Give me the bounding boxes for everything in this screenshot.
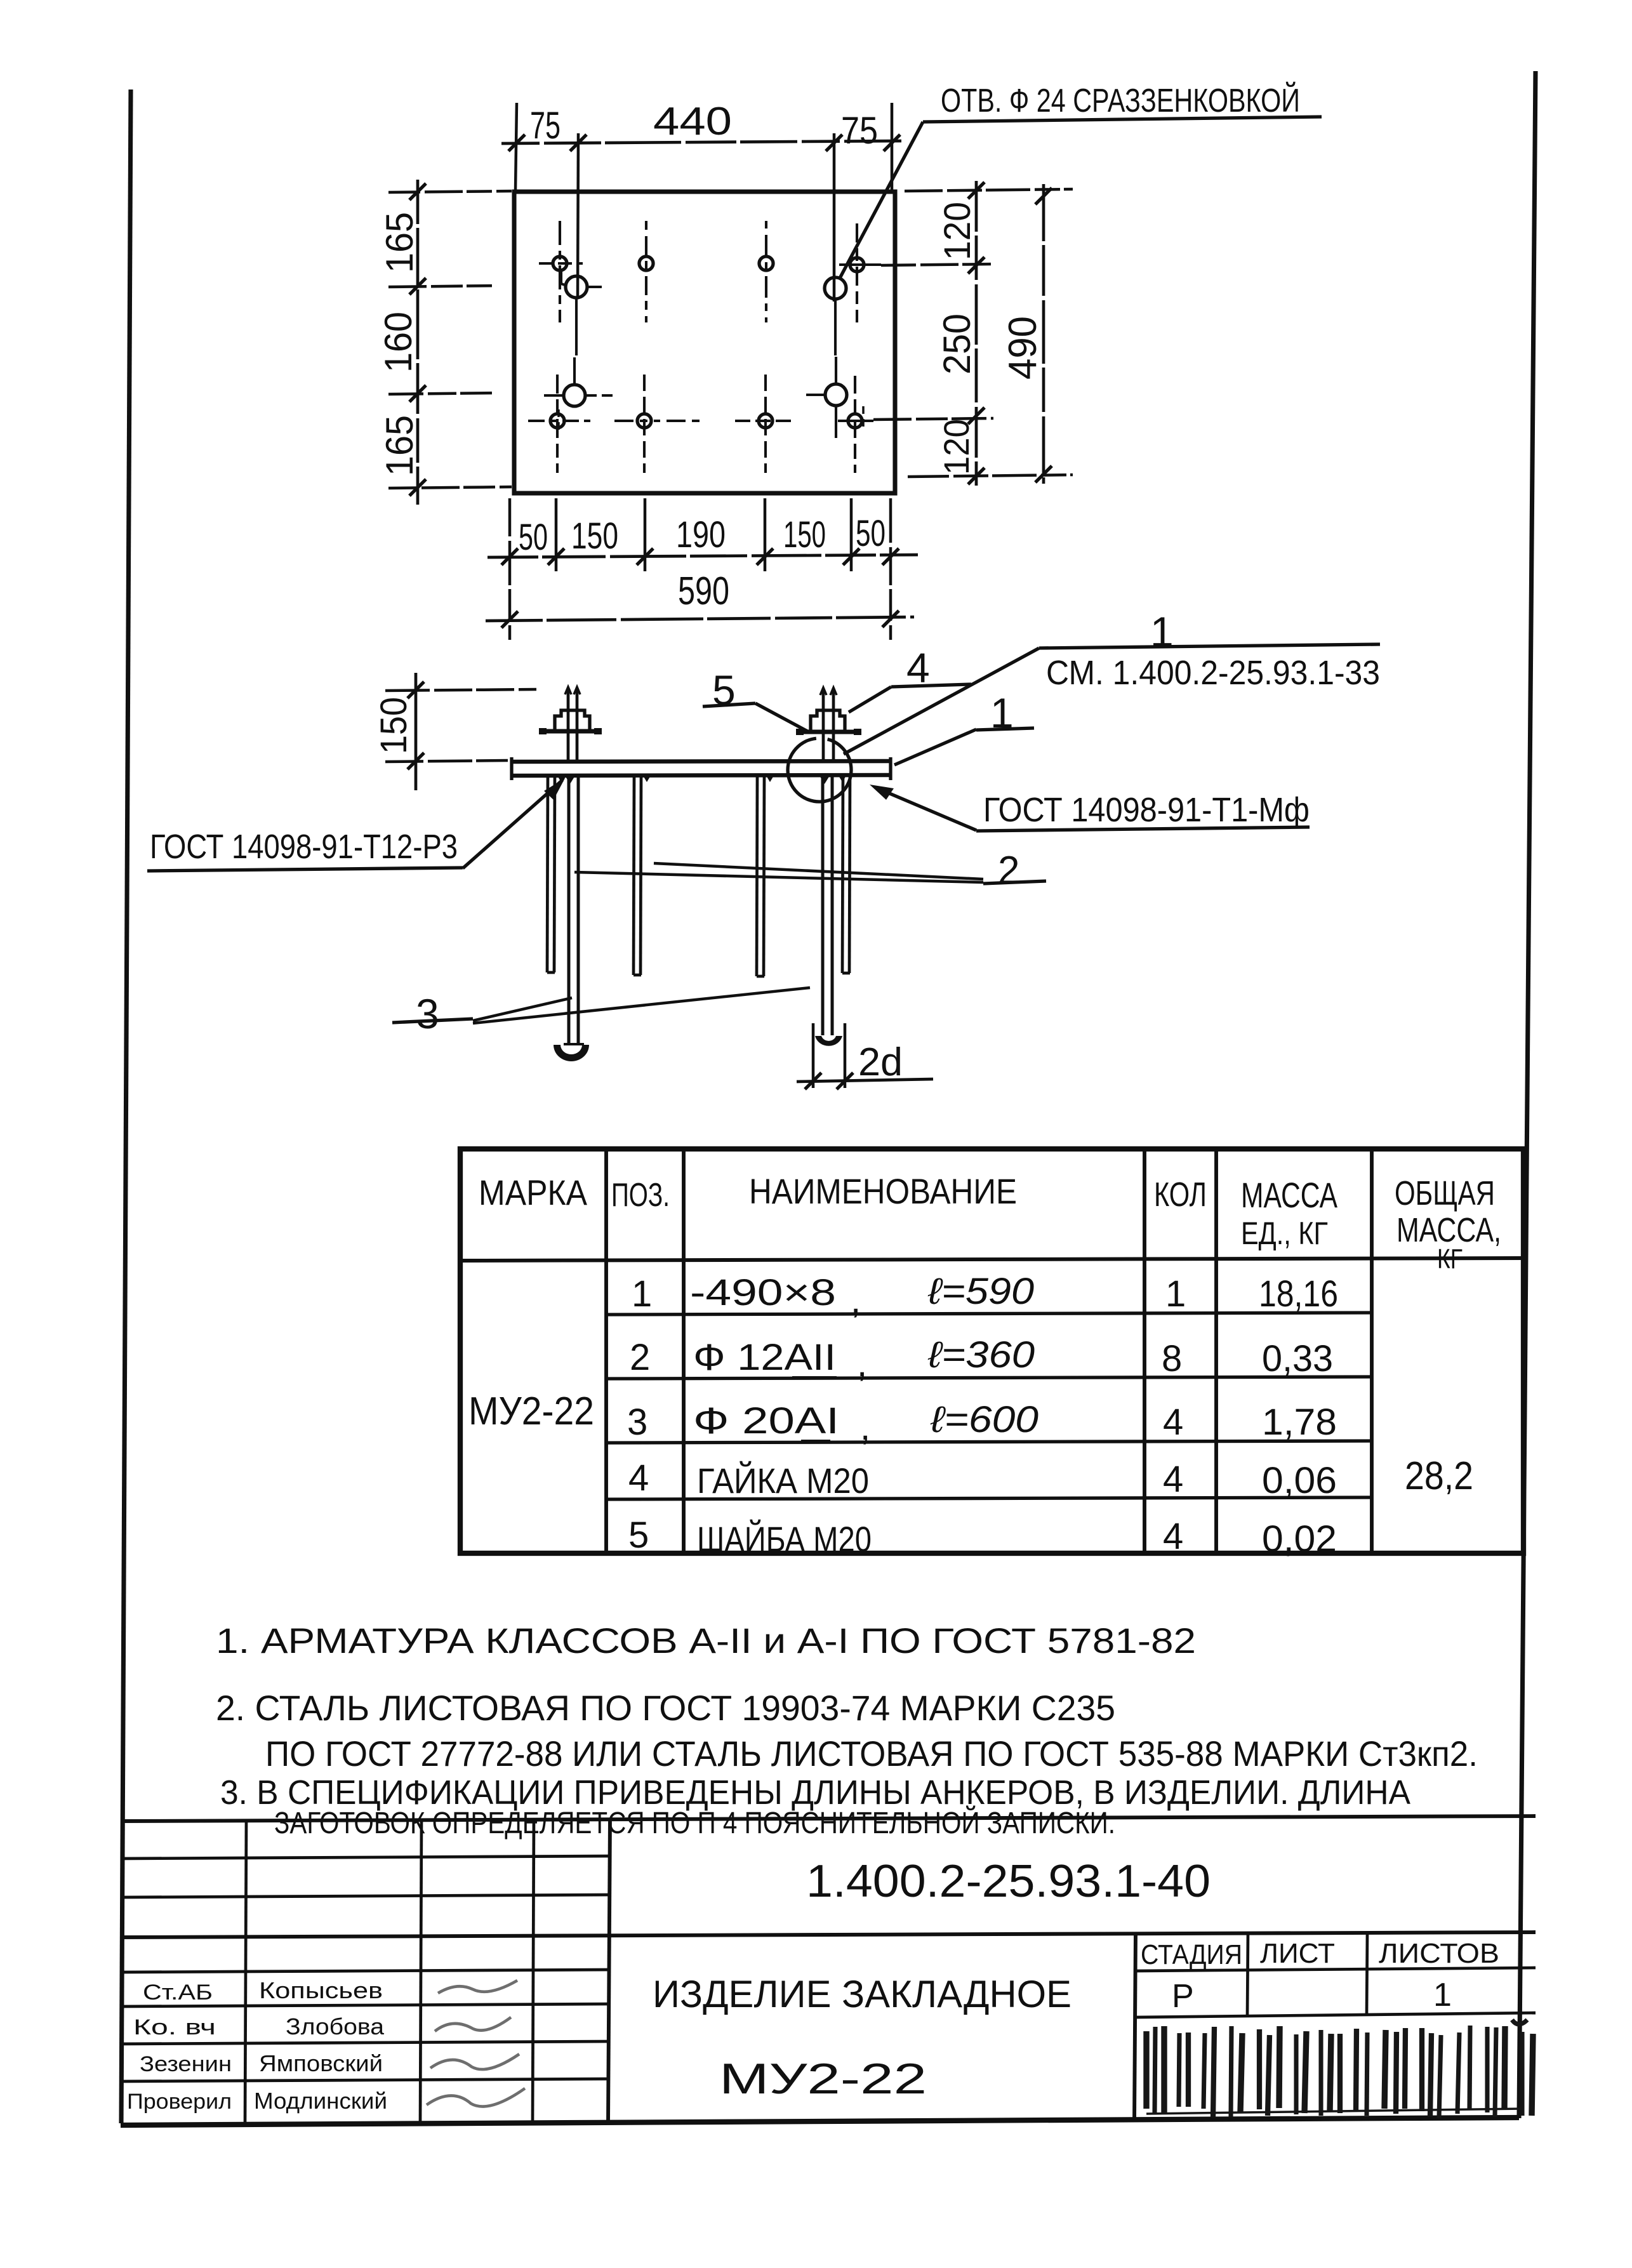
title block bottom line: [121, 2118, 1519, 2125]
svg-text:ПО ГОСТ 27772-88 ИЛИ СТАЛЬ ЛИС: ПО ГОСТ 27772-88 ИЛИ СТАЛЬ ЛИСТОВАЯ ПО Г…: [265, 1734, 1478, 1774]
detail circle: [788, 738, 851, 802]
label 3 leader: [392, 988, 810, 1037]
svg-text:4: 4: [1163, 1402, 1183, 1443]
label 4 leader: [849, 644, 971, 712]
elevation 150 dim: [385, 673, 536, 790]
svg-text:8: 8: [1162, 1338, 1182, 1379]
svg-text:ℓ=600: ℓ=600: [930, 1399, 1038, 1440]
svg-text:490: 490: [1001, 316, 1045, 380]
left dimension line 165/160/165: [409, 180, 426, 505]
top dimension line: [501, 135, 903, 151]
weld marks under plate: [557, 776, 846, 784]
svg-text:1.400.2-25.93.1-40: 1.400.2-25.93.1-40: [806, 1856, 1211, 1907]
svg-text:165: 165: [378, 212, 421, 273]
table row line 4: [606, 1497, 1372, 1499]
stadia header bottom: [1136, 1968, 1536, 1971]
extension lines left: [388, 191, 512, 488]
extension line left plate corner: [515, 103, 517, 190]
svg-text:СТАДИЯ: СТАДИЯ: [1141, 1939, 1242, 1970]
svg-text:4: 4: [1163, 1516, 1183, 1557]
svg-text:1: 1: [632, 1273, 652, 1315]
svg-text:Ст.АБ: Ст.АБ: [143, 1980, 213, 2005]
label 1 mid leader: [894, 689, 1034, 765]
hole small bottom 2: [614, 375, 701, 473]
title block line r2: [121, 1895, 609, 1897]
title block vertical name/stadia: [1134, 1933, 1136, 2120]
svg-text:120: 120: [936, 419, 976, 475]
stamp hatched org name: [1146, 2020, 1533, 2118]
svg-text:МАРКА: МАРКА: [479, 1172, 588, 1212]
nut left: [539, 710, 602, 734]
stadia row bottom: [1136, 2013, 1536, 2017]
svg-text:Злобова: Злобова: [286, 2013, 385, 2039]
weld label GOST T12-R3: [147, 778, 565, 871]
svg-text:МАССА: МАССА: [1241, 1175, 1337, 1215]
bolt right rod: [820, 687, 837, 762]
title block signature line 1: [121, 1970, 609, 1972]
svg-text:150: 150: [571, 515, 618, 557]
title block vertical main divider: [608, 1819, 610, 2122]
svg-text:Ямповский: Ямповский: [259, 2050, 383, 2076]
hole big countersunk top-right: [825, 277, 846, 355]
spec table frame: [460, 1149, 1523, 1553]
svg-text:3: 3: [416, 990, 439, 1037]
label 2 leader: [574, 849, 1046, 892]
label 1 top leader (see note): [844, 608, 1380, 754]
title block signature line 3: [121, 2041, 609, 2044]
svg-text:КГ: КГ: [1437, 1243, 1463, 1275]
bottom dimension line 590: [486, 611, 914, 628]
svg-text:-490×8: -490×8: [690, 1272, 836, 1313]
svg-text:Р: Р: [1172, 1978, 1194, 2015]
svg-text:50: 50: [519, 517, 548, 558]
extension line big hole col right: [833, 133, 836, 302]
list column line: [1367, 1933, 1367, 2014]
table column line Naimen/Kol: [1143, 1149, 1146, 1553]
svg-text:4: 4: [628, 1457, 649, 1499]
signature row 3 names: [140, 2050, 519, 2076]
svg-text:250: 250: [936, 314, 978, 375]
svg-text:,: ,: [860, 1407, 870, 1448]
svg-text:МУ2-22: МУ2-22: [719, 2055, 927, 2103]
2d detail extension lines: [797, 1023, 933, 1089]
svg-text:Ф 20АI: Ф 20АI: [693, 1400, 839, 1442]
svg-text:0,06: 0,06: [1262, 1460, 1337, 1501]
svg-text:Ф 12АII: Ф 12АII: [693, 1337, 836, 1378]
title block signature line 2: [121, 2004, 609, 2006]
svg-text:1,78: 1,78: [1262, 1402, 1337, 1443]
extension line big hole col left: [578, 133, 578, 298]
svg-text:Копысьев: Копысьев: [259, 1977, 383, 2003]
svg-text:150: 150: [783, 514, 826, 555]
table column line Massa/Obshaya: [1370, 1149, 1374, 1553]
svg-text:Проверил: Проверил: [127, 2090, 232, 2114]
weld label GOST T1-Mf: [870, 785, 1310, 831]
table column line Poz/Naimen: [682, 1149, 686, 1553]
right dimension line 120/250/120: [968, 181, 985, 486]
title block vertical a: [245, 1820, 246, 2123]
svg-text:190: 190: [676, 514, 726, 555]
svg-text:165: 165: [378, 415, 421, 476]
svg-text:0,33: 0,33: [1262, 1338, 1333, 1379]
svg-text:1: 1: [1165, 1273, 1186, 1315]
table row line 2: [606, 1377, 1372, 1379]
svg-text:18,16: 18,16: [1259, 1273, 1338, 1315]
hole big countersunk bottom-left: [544, 357, 613, 432]
svg-text:ЛИСТ: ЛИСТ: [1260, 1938, 1335, 1969]
svg-text:150: 150: [373, 697, 415, 754]
svg-text:ЕД., КГ: ЕД., КГ: [1241, 1216, 1328, 1251]
hole big countersunk bottom-right: [806, 357, 863, 438]
hole big countersunk top-left: [561, 269, 602, 355]
signature row 2 names: [133, 2013, 511, 2039]
svg-text:75: 75: [841, 109, 878, 152]
label 5 leader: [703, 666, 807, 731]
table row line 1: [606, 1313, 1372, 1315]
svg-text:ОТВ. Ф 24 СРАЗЗЕНКОВКОЙ: ОТВ. Ф 24 СРАЗЗЕНКОВКОЙ: [941, 82, 1300, 119]
svg-text:2: 2: [630, 1337, 650, 1378]
hole small top 2: [639, 221, 653, 322]
svg-text:ГОСТ 14098-91-Т12-Р3: ГОСТ 14098-91-Т12-Р3: [150, 828, 458, 866]
title block line r1: [121, 1856, 609, 1859]
svg-text:440: 440: [653, 100, 732, 143]
signature row 1 names: [143, 1977, 517, 2005]
svg-text:Зезенин: Зезенин: [140, 2052, 232, 2076]
bottom extension verticals: [510, 498, 891, 640]
leader hole note: [839, 117, 1322, 279]
table column line Kol/Massa: [1214, 1149, 1218, 1553]
svg-text:ПОЗ.: ПОЗ.: [611, 1177, 670, 1214]
bolt left rod: [565, 687, 580, 762]
table column line Marka/Poz: [604, 1149, 608, 1553]
bottom dimension line 50/150/190/150/50: [488, 548, 918, 565]
extension line right plate corner: [891, 103, 894, 190]
svg-text:КОЛ: КОЛ: [1154, 1176, 1207, 1214]
title block signature line 4: [121, 2079, 609, 2081]
right dimension line 490: [1035, 184, 1052, 484]
anchor rod 3 (f20) right with hook: [815, 776, 842, 1046]
svg-text:1: 1: [1433, 1977, 1452, 2013]
stadia column line: [1247, 1933, 1248, 2015]
svg-text:ℓ=360: ℓ=360: [927, 1334, 1035, 1376]
svg-text:МУ2-22: МУ2-22: [468, 1389, 594, 1433]
page left border: [121, 90, 131, 2123]
svg-text:ℓ=590: ℓ=590: [927, 1271, 1034, 1312]
svg-text:2: 2: [998, 849, 1019, 892]
svg-text:Ко. вч: Ко. вч: [133, 2015, 216, 2039]
svg-text:4: 4: [1163, 1459, 1183, 1500]
extension lines right: [873, 189, 1073, 477]
anchor rod 2 (f12) bar1: [547, 776, 555, 972]
table header line: [460, 1258, 1523, 1261]
svg-text:ГАЙКА М20: ГАЙКА М20: [697, 1461, 869, 1501]
title block vertical b: [420, 1819, 421, 2123]
svg-text:120: 120: [937, 202, 978, 260]
hole small top 1: [539, 221, 583, 322]
anchor rod 2 (f12) bar4: [842, 776, 850, 973]
hole small bottom 1: [528, 375, 590, 473]
title block top line: [121, 1816, 1536, 1821]
svg-text:ИЗДЕЛИЕ ЗАКЛАДНОЕ: ИЗДЕЛИЕ ЗАКЛАДНОЕ: [653, 1973, 1071, 2015]
svg-text:28,2: 28,2: [1405, 1454, 1473, 1498]
anchor rod 3 (f20) left with hook: [554, 776, 589, 1061]
signature row 4 names: [127, 2088, 525, 2114]
svg-text:1. АРМАТУРА КЛАССОВ А-II и: 1. АРМАТУРА КЛАССОВ А-II и А-I ПО ГОСТ 5…: [216, 1621, 1196, 1661]
hole small bottom 4: [838, 376, 873, 473]
svg-text:590: 590: [678, 569, 729, 613]
hole small bottom 3: [735, 375, 793, 473]
svg-text:ОБЩАЯ: ОБЩАЯ: [1395, 1174, 1495, 1212]
anchor rod 2 (f12) bar3: [757, 776, 764, 976]
anchor rod 2 (f12) bar2: [634, 776, 641, 975]
svg-text:160: 160: [377, 312, 420, 373]
svg-text:ГОСТ 14098-91-Т1-Мф: ГОСТ 14098-91-Т1-Мф: [983, 791, 1310, 829]
svg-text:2. СТАЛЬ ЛИСТОВАЯ ПО ГОСТ 1990: 2. СТАЛЬ ЛИСТОВАЯ ПО ГОСТ 19903-74 МАРКИ…: [216, 1688, 1115, 1728]
svg-text:0,02: 0,02: [1262, 1518, 1337, 1560]
svg-text:Модлинский: Модлинский: [254, 2088, 387, 2114]
svg-text:75: 75: [530, 104, 561, 147]
svg-text:НАИМЕНОВАНИЕ: НАИМЕНОВАНИЕ: [749, 1171, 1017, 1211]
title block vertical c: [533, 1819, 534, 2122]
svg-text:5: 5: [628, 1515, 649, 1556]
elevation plate: [512, 757, 891, 780]
svg-text:2d: 2d: [858, 1040, 903, 1084]
svg-text:3: 3: [627, 1402, 647, 1443]
hole small top 3: [759, 221, 773, 322]
svg-text:ЛИСТОВ: ЛИСТОВ: [1379, 1938, 1499, 1969]
svg-text:50: 50: [856, 513, 886, 554]
svg-text:3. В СПЕЦИФИКАЦИИ ПРИВЕДЕНЫ ДЛ: 3. В СПЕЦИФИКАЦИИ ПРИВЕДЕНЫ ДЛИНЫ АНКЕРО…: [220, 1774, 1410, 1812]
page right border: [1519, 71, 1536, 2118]
plan view: plate outline: [514, 192, 895, 493]
svg-text:,: ,: [851, 1280, 861, 1321]
svg-text:ЗАГОТОВОК ОПРЕДЕЛЯЕТСЯ ПО П 4: ЗАГОТОВОК ОПРЕДЕЛЯЕТСЯ ПО П 4 ПОЯСНИТЕЛЬ…: [274, 1805, 1115, 1840]
nut right: [796, 710, 861, 735]
svg-text:,: ,: [857, 1343, 867, 1384]
hole small top 4: [839, 223, 881, 322]
svg-text:СМ. 1.400.2-25.93.1-33: СМ. 1.400.2-25.93.1-33: [1046, 654, 1380, 692]
svg-text:ШАЙБА М20: ШАЙБА М20: [697, 1519, 872, 1559]
title block full line under doc number: [121, 1932, 1536, 1937]
table row line 3: [606, 1441, 1372, 1443]
